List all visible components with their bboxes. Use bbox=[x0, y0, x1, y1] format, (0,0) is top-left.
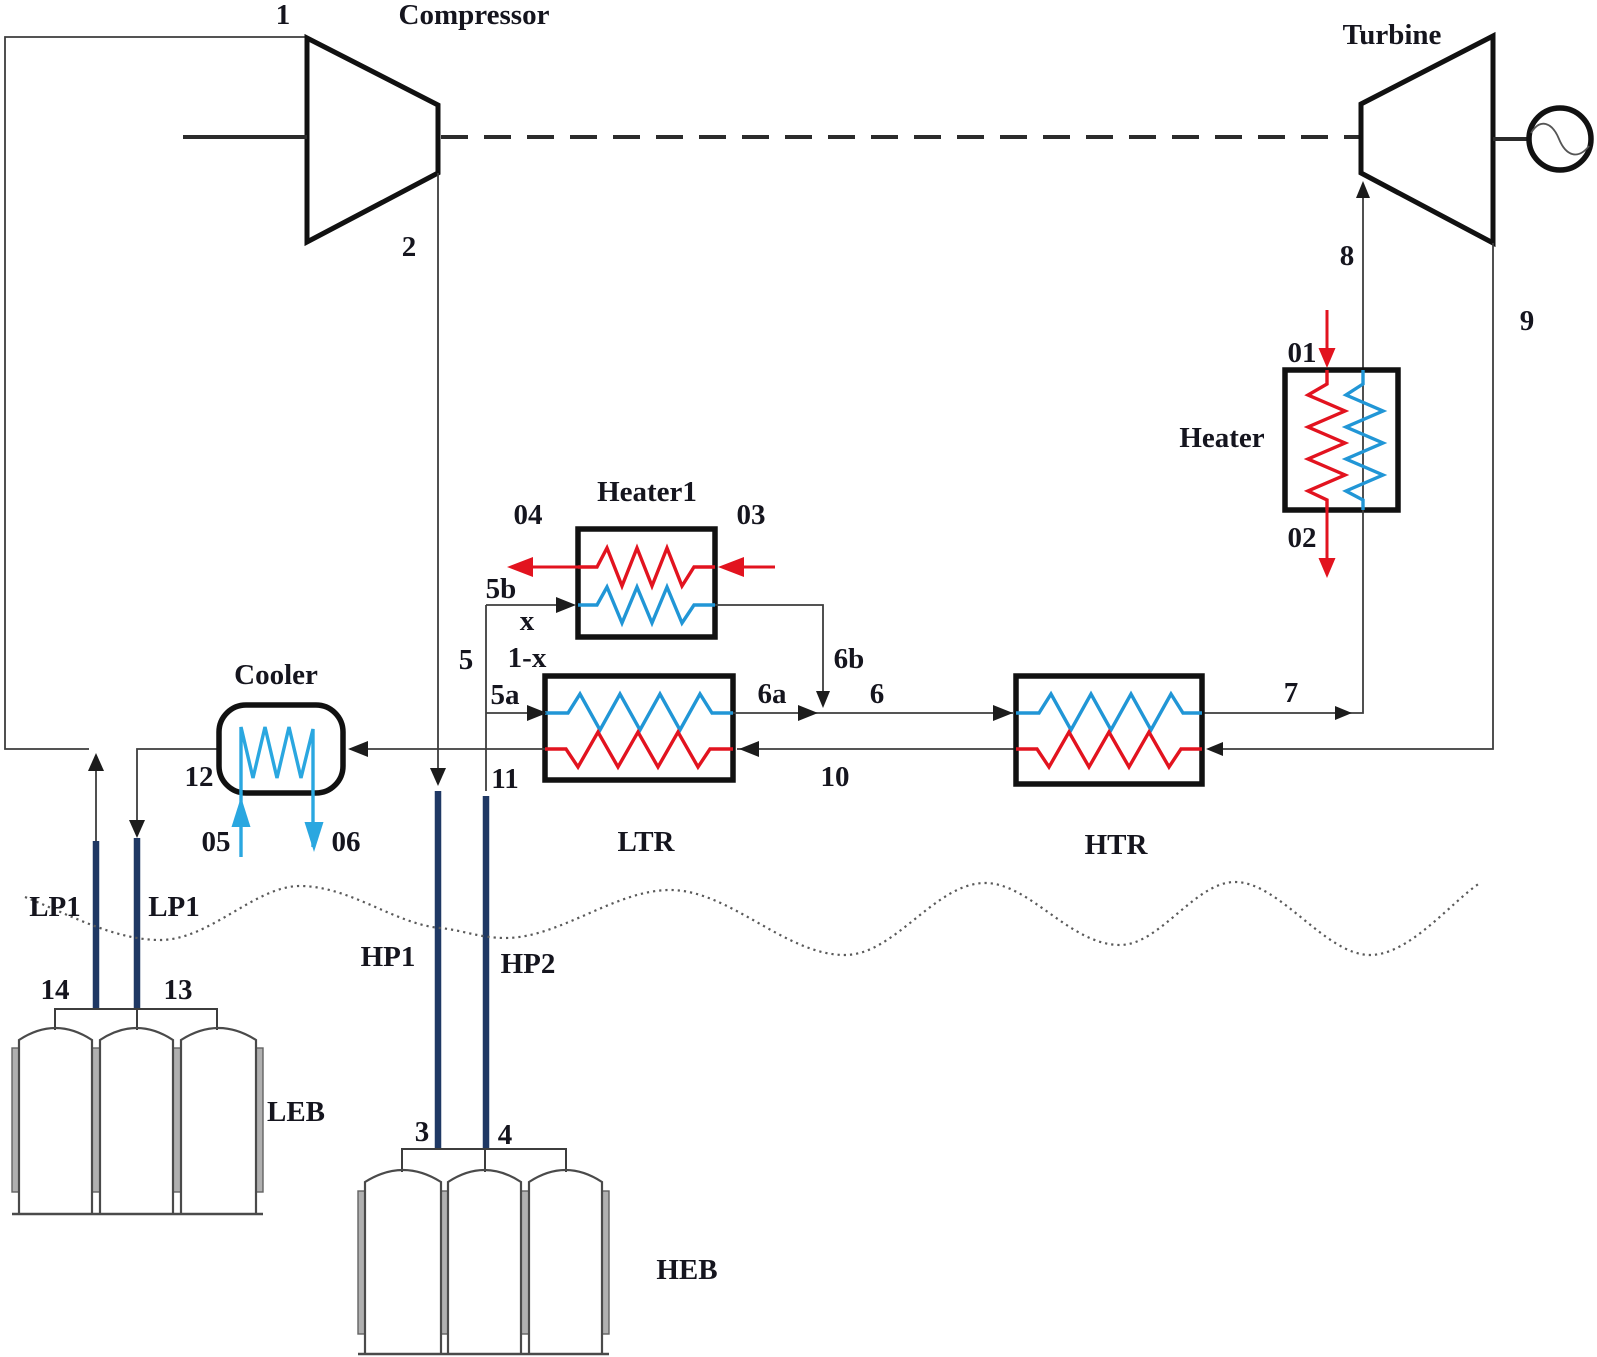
svg-text:LTR: LTR bbox=[618, 826, 676, 858]
svg-text:Compressor: Compressor bbox=[399, 0, 550, 31]
svg-text:7: 7 bbox=[1284, 677, 1299, 709]
svg-text:02: 02 bbox=[1288, 522, 1317, 554]
svg-text:x: x bbox=[520, 605, 535, 637]
svg-text:01: 01 bbox=[1288, 337, 1317, 369]
svg-text:5a: 5a bbox=[491, 679, 521, 711]
svg-text:LEB: LEB bbox=[267, 1096, 325, 1128]
svg-text:04: 04 bbox=[514, 499, 543, 531]
svg-text:5b: 5b bbox=[486, 573, 517, 605]
svg-text:HEB: HEB bbox=[656, 1254, 717, 1286]
svg-text:HP1: HP1 bbox=[361, 941, 416, 973]
svg-text:1-x: 1-x bbox=[508, 642, 547, 674]
svg-text:HP2: HP2 bbox=[501, 948, 556, 980]
svg-text:Cooler: Cooler bbox=[234, 659, 318, 691]
svg-text:13: 13 bbox=[164, 974, 193, 1006]
svg-text:2: 2 bbox=[402, 231, 417, 263]
svg-text:5: 5 bbox=[459, 644, 474, 676]
svg-text:4: 4 bbox=[498, 1119, 513, 1151]
svg-text:12: 12 bbox=[185, 761, 214, 793]
svg-text:6: 6 bbox=[870, 678, 885, 710]
svg-text:1: 1 bbox=[276, 0, 291, 31]
svg-text:11: 11 bbox=[491, 763, 518, 795]
svg-text:14: 14 bbox=[41, 974, 70, 1006]
svg-text:06: 06 bbox=[332, 826, 361, 858]
svg-text:05: 05 bbox=[202, 826, 231, 858]
svg-text:3: 3 bbox=[415, 1116, 430, 1148]
svg-text:6a: 6a bbox=[758, 678, 788, 710]
svg-text:HTR: HTR bbox=[1085, 829, 1149, 861]
svg-text:9: 9 bbox=[1520, 305, 1535, 337]
svg-text:Heater1: Heater1 bbox=[597, 476, 697, 508]
svg-text:03: 03 bbox=[737, 499, 766, 531]
svg-text:Heater: Heater bbox=[1179, 422, 1264, 454]
svg-text:8: 8 bbox=[1340, 240, 1355, 272]
svg-text:LP1: LP1 bbox=[148, 891, 200, 923]
svg-text:LP1: LP1 bbox=[29, 891, 81, 923]
svg-text:Turbine: Turbine bbox=[1343, 19, 1442, 51]
svg-text:10: 10 bbox=[821, 761, 850, 793]
svg-text:6b: 6b bbox=[834, 643, 865, 675]
